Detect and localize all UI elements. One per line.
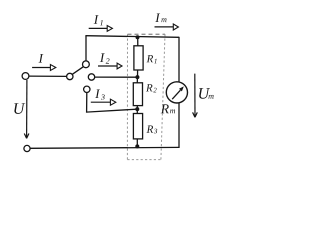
current arrow I1 xyxy=(89,26,113,32)
wire P2 to R1R2 junction xyxy=(95,76,137,78)
label R1 xyxy=(147,55,157,63)
voltage arrow U xyxy=(24,80,29,138)
label I1 xyxy=(94,15,103,25)
junction dot bottom node xyxy=(135,144,139,148)
right wire top segment xyxy=(178,37,180,82)
switch pole circle xyxy=(67,73,73,79)
junction dot node between R2 and R3 xyxy=(135,107,139,111)
resistor R2 xyxy=(133,83,142,106)
meter U1 galvanometer xyxy=(166,82,187,103)
resistor R3 xyxy=(133,114,142,139)
label R2 xyxy=(146,84,157,92)
top rail wire xyxy=(85,36,179,38)
label I3 xyxy=(95,90,105,100)
meter needle xyxy=(172,86,184,99)
label I2 xyxy=(100,53,110,63)
label U xyxy=(14,103,25,114)
voltage arrow Um xyxy=(193,74,198,118)
wire T1 to switch pole xyxy=(29,75,67,77)
junction dot top node xyxy=(136,35,140,39)
wire P1 up to top rail xyxy=(85,36,87,61)
wire R1 to R1R2 junction xyxy=(137,70,139,77)
wire R3 to bottom rail xyxy=(136,139,138,148)
bottom rail wire xyxy=(30,146,179,149)
current arrow I2 xyxy=(98,63,122,69)
terminal T2 (left bottom) xyxy=(24,145,30,151)
terminal T1 (left top input) xyxy=(22,73,29,80)
switch contact P2 xyxy=(88,74,94,80)
label Rm xyxy=(161,104,175,113)
label Im xyxy=(155,14,166,23)
label R3 xyxy=(147,126,158,134)
current arrow Im xyxy=(155,24,179,30)
wire junction to R2 xyxy=(136,77,138,83)
wire top dot to R1 xyxy=(137,37,139,46)
switch blade S xyxy=(72,67,83,75)
wire R2 to R2R3 junction xyxy=(136,106,138,110)
wire junction to R3 xyxy=(136,109,138,113)
switch contact P1 xyxy=(83,61,90,68)
current arrow I3 xyxy=(91,99,116,105)
label Um xyxy=(199,88,214,99)
dashed enclosure box xyxy=(127,34,165,160)
junction dot node between R1 and R2 xyxy=(135,75,139,79)
switch contact P3 xyxy=(84,86,90,92)
resistor R1 xyxy=(134,46,143,70)
right wire bottom segment xyxy=(178,103,180,148)
label I xyxy=(39,54,44,63)
current arrow I xyxy=(32,65,56,71)
wire P3 down then right to R2R3 junction xyxy=(87,93,137,113)
